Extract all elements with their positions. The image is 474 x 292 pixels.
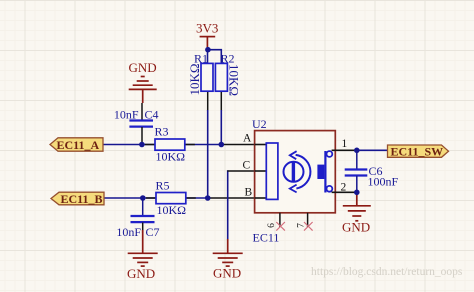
- pin: R5 right lead: [186, 197, 196, 199]
- U2 bottom pin 7: [307, 213, 309, 227]
- resistor R3: [155, 125, 186, 164]
- resistor R5: [156, 179, 187, 218]
- arrowhead bottom: [290, 185, 297, 193]
- wire pin1 to port SW: [356, 149, 388, 151]
- svg-text:6: 6: [267, 223, 277, 228]
- push button actuator bar: [324, 151, 326, 193]
- pin: R3 left lead: [145, 144, 155, 146]
- junction pin1 / C6: [354, 148, 360, 154]
- svg-text:U2: U2: [252, 117, 267, 131]
- ground GND top (above C4): [129, 77, 157, 104]
- svg-text:GND: GND: [213, 266, 241, 281]
- svg-text:10KΩ: 10KΩ: [227, 64, 242, 96]
- push button cap: [317, 165, 324, 179]
- svg-text:EC11_A: EC11_A: [57, 138, 100, 152]
- port EC11_A: [50, 138, 103, 152]
- wire net B horizontal: [104, 197, 209, 199]
- ground GND bottom-left (below C7): [128, 230, 158, 266]
- junction 3V3/R1/R2: [205, 47, 211, 53]
- svg-text:C7: C7: [146, 225, 160, 239]
- junction R1 / net B: [205, 195, 211, 201]
- svg-text:R1: R1: [194, 52, 208, 66]
- pin C of U2 (inner segment): [255, 170, 267, 172]
- wire R2 bottom down to A net: [220, 110, 222, 145]
- svg-text:100nF: 100nF: [368, 175, 399, 189]
- svg-text:B: B: [245, 187, 253, 199]
- svg-text:GND: GND: [127, 266, 155, 281]
- svg-text:R5: R5: [156, 179, 170, 193]
- svg-text:2: 2: [341, 182, 347, 194]
- svg-text:10nF: 10nF: [114, 108, 139, 122]
- resistor R1: [187, 52, 213, 96]
- svg-text:10KΩ: 10KΩ: [157, 203, 187, 217]
- rotary shaft bar: [292, 162, 295, 182]
- pin B of U2 (inner segment): [255, 197, 267, 199]
- pin: R5 left lead: [146, 197, 156, 199]
- op component U2 body: [252, 117, 335, 213]
- svg-text:10nF: 10nF: [116, 225, 141, 239]
- encoder contact block: [266, 143, 278, 199]
- svg-text:EC11_B: EC11_B: [61, 192, 103, 206]
- svg-text:10KΩ: 10KΩ: [187, 63, 202, 95]
- svg-text:https://blog.csdn.net/return_o: https://blog.csdn.net/return_oops: [311, 266, 463, 278]
- svg-text:10KΩ: 10KΩ: [156, 150, 186, 164]
- svg-text:A: A: [243, 133, 252, 145]
- no-ERC marker X on pin 6: [276, 222, 285, 231]
- power port 3V3: [200, 37, 216, 50]
- U2 bottom pin 6: [279, 213, 281, 227]
- svg-text:C: C: [243, 160, 251, 172]
- junction C4 / net A: [139, 142, 145, 148]
- port EC11_SW: [388, 145, 449, 159]
- button contact bottom: [327, 186, 333, 192]
- pin B of U2: [208, 197, 266, 199]
- port EC11_B: [51, 192, 104, 206]
- arrowhead top: [290, 151, 297, 159]
- rotary encoder symbol circle: [284, 162, 304, 182]
- pin 1 of U2: [332, 149, 356, 151]
- pin 2 of U2: [332, 191, 356, 193]
- svg-text:GND: GND: [129, 60, 157, 75]
- button contact top: [327, 151, 333, 157]
- pin A of U2: [222, 144, 267, 146]
- wire 3V3 junction to R2 top: [208, 50, 221, 64]
- svg-text:R3: R3: [155, 125, 169, 139]
- no-ERC marker X on pin 7: [304, 222, 313, 231]
- pin: R1 bottom lead: [207, 91, 209, 111]
- resistor R2: [215, 52, 241, 97]
- capacitor C4: [114, 103, 159, 145]
- pin C of U2: [227, 170, 266, 172]
- rotation arc: [296, 155, 311, 189]
- junction C7 / net B: [140, 195, 146, 201]
- svg-text:EC11: EC11: [253, 231, 280, 245]
- junction pin2 / C6 / GND: [354, 190, 360, 196]
- svg-text:EC11_SW: EC11_SW: [391, 145, 444, 159]
- capacitor C7: [116, 198, 159, 239]
- wire net A horizontal: [103, 144, 223, 146]
- pin A of U2 (inner segment): [255, 144, 267, 146]
- svg-text:GND: GND: [342, 220, 370, 235]
- svg-text:C4: C4: [145, 108, 159, 122]
- pin: R2 bottom lead: [220, 91, 222, 111]
- svg-text:1: 1: [342, 138, 348, 150]
- junction R2 / net A: [219, 142, 225, 148]
- capacitor C6: [345, 150, 399, 192]
- svg-text:3V3: 3V3: [196, 21, 218, 36]
- wire R1 bottom down to B net: [207, 110, 209, 198]
- ground GND right (pin 2): [343, 192, 371, 221]
- pin: R3 right lead: [185, 144, 195, 146]
- wire 3V3 junction to R1 top: [207, 50, 209, 64]
- ground GND middle (net C): [213, 239, 243, 266]
- wire net C to ground: [227, 171, 230, 239]
